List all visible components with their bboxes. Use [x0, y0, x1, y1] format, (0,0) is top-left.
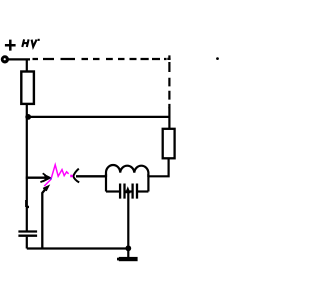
wire dash-dot corner	[167, 55, 170, 59]
wire dash-dot HV rail horizontal	[33, 58, 167, 60]
wire horizontal bus to R2	[27, 116, 170, 118]
wire R2 bottom lead to tank	[148, 158, 168, 176]
spark gap right electrode wire	[76, 175, 106, 177]
wire tank left vertical	[105, 174, 107, 192]
wire tank bottom left segment	[106, 190, 119, 192]
label +	[5, 40, 16, 51]
wire C1 bottom lead	[26, 237, 28, 249]
spark gap trigger electrode wire	[42, 189, 46, 249]
inductor L1 three humps	[106, 165, 148, 177]
wire bottom ground bus	[27, 247, 129, 249]
wire R1 bottom to C1	[26, 104, 28, 231]
wire tank bottom center segment	[126, 190, 132, 192]
wire ground stem	[127, 248, 129, 257]
resistor R2	[163, 129, 175, 159]
spark arc end dot	[70, 175, 73, 178]
wire jog artifact	[26, 200, 29, 207]
wire tank bottom right segment	[138, 190, 148, 192]
ground symbol left nub	[117, 258, 120, 261]
stray dot artifact	[216, 57, 219, 60]
wire R2 top lead	[168, 107, 170, 129]
spark gap left electrode arrowhead	[44, 174, 51, 181]
wire center tap to ground bus	[127, 191, 129, 248]
spark arc magenta	[44, 165, 68, 186]
resistor R1	[21, 72, 34, 104]
capacitor C2	[120, 184, 124, 199]
capacitor C1 plates	[18, 232, 37, 236]
center tap arrow	[125, 186, 131, 193]
label HV	[22, 39, 36, 47]
wire tank right vertical	[147, 174, 149, 192]
blue pixel artifact at gap	[50, 178, 52, 180]
terminal +HV input	[1, 55, 9, 63]
spark gap trigger arrowhead	[43, 186, 48, 191]
spark gap left electrode wire	[26, 177, 46, 179]
node junction dot left bus	[25, 114, 31, 120]
wire R1 top lead	[26, 59, 28, 71]
ground symbol	[119, 257, 138, 261]
node junction dot ground	[125, 245, 131, 251]
spark gap right electrode arrowhead	[73, 169, 79, 183]
wire from terminal	[8, 58, 30, 60]
wire dash-dot HV rail vertical	[168, 62, 170, 108]
spark gap left electrode barbs	[40, 173, 45, 182]
capacitor C3	[133, 184, 137, 199]
